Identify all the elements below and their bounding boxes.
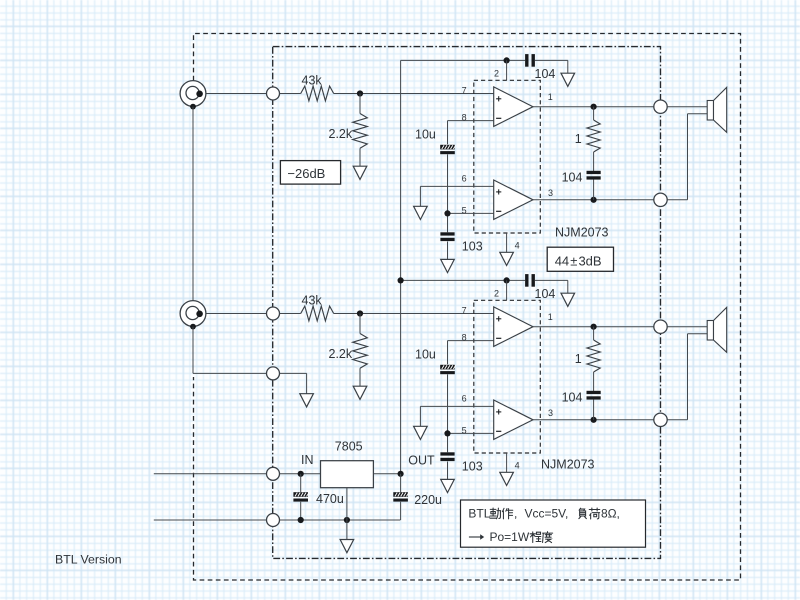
node pin5 ch2 <box>444 430 450 436</box>
wire input row ch2 jack to series resistor <box>200 313 301 315</box>
wire 2.2k to ground ch1 <box>359 148 361 166</box>
ground below 2.2k ch1 <box>353 166 367 179</box>
wire Vcc to pin2 bypass row ch1 <box>401 59 525 61</box>
note line 2: → Po=1W程度 <box>469 530 553 544</box>
capacitor 104 bypass ch2 <box>525 274 528 287</box>
note line 1: BTL動作，Vcc=5V，負荷8Ω， <box>468 506 619 520</box>
svg-text:BTL: BTL <box>468 506 490 520</box>
ground bypass ch1 <box>561 73 575 86</box>
node pin2 ch1 <box>504 57 510 63</box>
resistor 43k ch1 <box>301 86 334 101</box>
svg-text:7: 7 <box>462 85 467 95</box>
svg-text:104: 104 <box>562 171 583 185</box>
svg-text:43k: 43k <box>302 74 323 88</box>
svg-text:10u: 10u <box>415 348 436 362</box>
svg-text:2: 2 <box>494 69 499 79</box>
speaker ch1 <box>707 101 713 121</box>
svg-text:470u: 470u <box>316 492 344 506</box>
svg-text:220u: 220u <box>414 493 442 507</box>
svg-text:44 ± 3dB: 44 ± 3dB <box>555 253 602 268</box>
wire 10u to pin5 node and 103 cap ch1 <box>447 154 449 232</box>
wire pin8 ch1 <box>448 120 494 122</box>
svg-text:3: 3 <box>548 188 553 198</box>
svg-text:1: 1 <box>575 132 582 146</box>
svg-text:2.2k: 2.2k <box>329 127 353 141</box>
shield terminal circle <box>267 367 280 380</box>
capacitor 220u <box>400 474 402 492</box>
ground rail terminal <box>267 514 280 527</box>
svg-text:2: 2 <box>494 289 499 299</box>
RCA jack ch2 <box>180 301 206 330</box>
wire bypass cap to ground ch1 <box>535 59 568 61</box>
node 7805 out <box>398 471 404 477</box>
wire 103 to ground ch1 <box>447 242 449 260</box>
wire output pin3 ch1 <box>533 199 654 201</box>
wire supply input row <box>154 473 321 475</box>
svg-text:OUT: OUT <box>408 454 435 468</box>
svg-text:6: 6 <box>462 173 467 183</box>
wire 10u to pin5 node and 103 cap ch2 <box>447 374 449 452</box>
op-amp B ch1 <box>494 180 533 219</box>
gain label box 44±3dB <box>547 247 613 271</box>
node 470u bottom <box>298 517 304 523</box>
input terminal circle ch2 <box>267 307 280 320</box>
ground 103 ch2 <box>441 479 455 492</box>
op-amp A ch1 <box>494 87 533 127</box>
wire shield jack1 to jack2 <box>192 107 194 301</box>
RCA jack ch1 <box>180 81 206 110</box>
svg-text:10u: 10u <box>415 128 436 142</box>
wire terminal1 to speaker ch1 <box>667 106 707 108</box>
gain label box -26dB <box>280 161 340 185</box>
wire terminal3 to speaker ch2 <box>667 419 687 421</box>
svg-text:NJM2073: NJM2073 <box>541 458 595 472</box>
capacitor 104 zobel ch1 <box>587 171 601 174</box>
ground 103 ch1 <box>441 259 455 272</box>
wire output1 to load resistor ch1 <box>593 107 595 120</box>
resistor 1 ohm ch2 <box>587 340 600 372</box>
wire ground rail <box>154 519 401 521</box>
wire 2.2k to ground ch2 <box>359 368 361 386</box>
wire terminal1 to speaker ch2 <box>667 326 707 328</box>
capacitor 10u ch1 <box>440 145 456 154</box>
wire output pin3 ch2 <box>533 419 654 421</box>
ground 7805 <box>340 540 354 553</box>
node Vcc rail to ch2 bypass row <box>398 277 404 283</box>
node input-divider ch2 <box>357 310 363 316</box>
svg-text:103: 103 <box>462 460 483 474</box>
capacitor 103 ch2 <box>440 452 454 455</box>
wire pin5 ch1 <box>448 212 494 214</box>
wire pin5 ch2 <box>448 432 494 434</box>
svg-text:104: 104 <box>535 67 556 81</box>
supply input terminal <box>267 467 280 480</box>
inner dash-dot amplifier-unit box <box>273 47 661 559</box>
resistor 1 ohm ch1 <box>587 120 600 152</box>
svg-text:IN: IN <box>301 453 314 467</box>
capacitor 470u <box>300 474 302 492</box>
svg-text:4: 4 <box>515 240 520 250</box>
svg-text:104: 104 <box>535 287 556 301</box>
wire pin4 ch1 <box>506 233 508 252</box>
wire input row ch2 resistor to pin7 <box>334 313 494 315</box>
wire resistor to 104 zobel ch2 <box>593 372 595 391</box>
svg-text:Vcc=5V: Vcc=5V <box>525 506 567 520</box>
IC NJM2073 dashed outline ch1 <box>474 80 541 233</box>
note box BTL operation <box>461 500 646 547</box>
wire shield to ground terminal <box>193 372 307 374</box>
wire node to 2.2k ch1 <box>359 94 361 114</box>
svg-text:−26dB: −26dB <box>287 166 325 181</box>
wire 104 zobel to output3 ch2 <box>593 400 595 420</box>
wire pin8 ch2 <box>448 340 494 342</box>
resistor 43k ch2 <box>301 306 334 321</box>
op-amp B ch2 <box>494 400 533 439</box>
svg-text:,: , <box>565 506 568 520</box>
svg-text:,: , <box>617 506 620 520</box>
speaker ch2 <box>707 321 713 341</box>
wire Vcc to pin2 bypass row ch2 <box>401 279 525 281</box>
node output1 ch1 <box>591 104 597 110</box>
svg-text:3: 3 <box>548 408 553 418</box>
wire pin4 ch2 <box>506 453 508 472</box>
resistor 2.2k ch1 <box>353 114 368 149</box>
node pin2 ch2 <box>504 277 510 283</box>
ground pin6 ch1 <box>414 206 428 219</box>
wire terminal3 to speaker ch1 <box>667 199 687 201</box>
wire pin2 stub into IC box ch2 <box>506 280 508 300</box>
wire shield drop <box>306 373 308 393</box>
node output3 ch2 <box>591 417 597 423</box>
output terminal 3 ch1 <box>654 193 667 206</box>
svg-text:6: 6 <box>462 393 467 403</box>
wire 7805 out <box>373 473 400 475</box>
output terminal 1 ch2 <box>654 320 667 333</box>
svg-text:8Ω: 8Ω <box>601 506 617 520</box>
svg-text:1: 1 <box>548 92 553 102</box>
op-amp A ch2 <box>494 307 533 347</box>
svg-text:NJM2073: NJM2073 <box>555 226 609 240</box>
svg-text:,: , <box>514 506 517 520</box>
output terminal 3 ch2 <box>654 413 667 426</box>
wire resistor to 104 zobel ch1 <box>593 152 595 171</box>
wire input row ch1 resistor to pin7 <box>334 93 494 95</box>
node 7805 gnd <box>344 517 350 523</box>
svg-text:Po=1W: Po=1W <box>490 530 530 544</box>
wire node to 2.2k ch2 <box>359 314 361 334</box>
output terminal 1 ch1 <box>654 100 667 113</box>
ground bypass ch2 <box>561 293 575 306</box>
ground pin6 ch2 <box>414 426 428 439</box>
wire input row ch1 jack to series resistor <box>200 93 301 95</box>
node pin5 ch1 <box>444 210 450 216</box>
svg-text:2.2k: 2.2k <box>329 347 353 361</box>
node input-divider ch1 <box>357 90 363 96</box>
wire output pin1 ch2 <box>533 326 654 328</box>
regulator 7805 <box>321 461 374 488</box>
outer dashed boundary box <box>194 34 741 581</box>
svg-text:BTL Version: BTL Version <box>55 552 122 566</box>
resistor 2.2k ch2 <box>353 334 368 369</box>
svg-text:7805: 7805 <box>335 439 363 453</box>
wire bypass cap to ground ch2 <box>535 279 568 281</box>
input terminal circle ch1 <box>267 87 280 100</box>
node output1 ch2 <box>591 324 597 330</box>
svg-text:5: 5 <box>462 426 467 436</box>
svg-text:7: 7 <box>462 305 467 315</box>
wire shield jack2 down <box>192 327 194 374</box>
wire 103 to ground ch2 <box>447 462 449 480</box>
wire pin2 stub into IC box ch1 <box>506 60 508 80</box>
ground shield <box>300 394 314 407</box>
capacitor 103 ch1 <box>440 232 454 235</box>
ground pin4 ch1 <box>500 252 514 265</box>
ground pin4 ch2 <box>500 472 514 485</box>
wire output1 to load resistor ch2 <box>593 327 595 340</box>
node output3 ch1 <box>591 197 597 203</box>
capacitor 10u ch2 <box>440 365 456 374</box>
IC NJM2073 dashed outline ch2 <box>474 300 541 453</box>
wire 104 zobel to output3 ch1 <box>593 180 595 200</box>
ground below 2.2k ch2 <box>353 386 367 399</box>
wire output pin1 ch1 <box>533 106 654 108</box>
capacitor 104 zobel ch2 <box>587 391 601 394</box>
node 470u top <box>298 471 304 477</box>
wire Vcc rail vertical <box>400 60 402 473</box>
svg-text:103: 103 <box>462 240 483 254</box>
svg-text:1: 1 <box>575 352 582 366</box>
svg-text:1: 1 <box>548 312 553 322</box>
svg-text:5: 5 <box>462 206 467 216</box>
capacitor 104 bypass ch1 <box>525 54 528 67</box>
wire 7805 gnd <box>346 488 348 540</box>
wire pin6 ch1 <box>420 185 493 187</box>
svg-text:43k: 43k <box>302 294 323 308</box>
wire pin6 ch2 <box>420 405 493 407</box>
svg-text:4: 4 <box>515 460 520 470</box>
svg-text:104: 104 <box>562 391 583 405</box>
